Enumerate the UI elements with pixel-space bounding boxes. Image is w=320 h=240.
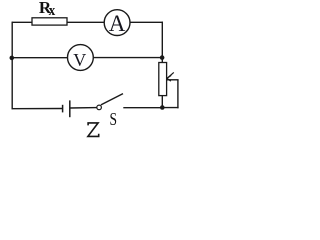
wire battery to switch: [70, 107, 97, 109]
rheostat wiper arrow: [167, 72, 174, 81]
wire right vertical upper: [161, 22, 163, 63]
switch S blade: [101, 94, 123, 105]
wire top-middle: resistor to ammeter: [67, 21, 104, 23]
wire rheostat stub bottom: [161, 96, 163, 108]
wire left vertical: [11, 22, 13, 110]
voltmeter V circle: [68, 45, 94, 71]
wire voltmeter branch left: [12, 57, 67, 59]
label Z: [88, 123, 99, 136]
svg-text:S: S: [110, 109, 118, 129]
wire top-left: left edge to resistor: [12, 21, 33, 23]
wire bottom right: junction to right vertical: [162, 107, 178, 109]
wire voltmeter branch right: [93, 57, 162, 59]
svg-text:x: x: [49, 3, 56, 19]
switch S pivot: [97, 105, 102, 110]
rheostat R' body: [159, 63, 167, 96]
wire bottom left: corner to battery: [12, 108, 63, 110]
battery short plate: [62, 105, 64, 113]
node bottom junction: [160, 105, 165, 110]
battery long plate: [69, 100, 71, 117]
node left junction: [10, 56, 15, 61]
wire top-right: ammeter to corner: [130, 21, 163, 23]
wire right vertical lower: [177, 80, 179, 109]
svg-text:A: A: [109, 11, 126, 36]
resistor Rx: [32, 18, 67, 25]
node right junction: [160, 55, 165, 60]
ammeter A circle: [104, 10, 130, 36]
svg-text:V: V: [73, 50, 86, 70]
wire wiper tail horizontal: [167, 79, 179, 81]
wire bottom: switch to junction: [123, 107, 162, 109]
